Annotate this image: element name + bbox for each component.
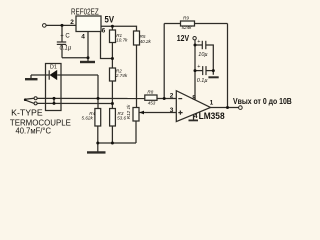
svg-text:1: 1 xyxy=(210,99,214,106)
svg-text:40.2k: 40.2k xyxy=(140,39,152,44)
svg-text:8: 8 xyxy=(192,94,196,101)
svg-text:453: 453 xyxy=(148,101,156,106)
svg-text:5.62k: 5.62k xyxy=(82,116,94,121)
svg-text:4: 4 xyxy=(81,33,85,40)
svg-text:+ C: + C xyxy=(60,33,70,39)
svg-text:0.1µ: 0.1µ xyxy=(60,45,72,51)
svg-text:Vвых от 0 до 10В: Vвых от 0 до 10В xyxy=(233,96,292,106)
svg-text:D1: D1 xyxy=(50,64,57,70)
svg-text:R12 1k: R12 1k xyxy=(126,104,131,119)
svg-text:2: 2 xyxy=(170,92,174,99)
svg-text:2.74k: 2.74k xyxy=(115,73,128,78)
svg-text:6: 6 xyxy=(102,27,106,34)
svg-text:12V: 12V xyxy=(177,33,190,43)
svg-text:+: + xyxy=(197,64,200,70)
svg-text:10.7k: 10.7k xyxy=(116,37,128,42)
svg-text:+: + xyxy=(197,39,200,45)
svg-text:524k: 524k xyxy=(182,25,193,30)
svg-text:0.1µ: 0.1µ xyxy=(197,78,208,84)
svg-text:K-TYPE: K-TYPE xyxy=(11,109,43,118)
svg-text:3: 3 xyxy=(170,107,174,114)
svg-text:2: 2 xyxy=(70,19,74,26)
svg-text:40.7мF/°C: 40.7мF/°C xyxy=(16,127,52,136)
svg-text:REF02EZ: REF02EZ xyxy=(71,6,99,16)
svg-text:53.6: 53.6 xyxy=(117,115,126,120)
svg-text:R8: R8 xyxy=(147,89,153,94)
svg-text:10µ: 10µ xyxy=(198,52,207,58)
svg-text:R9: R9 xyxy=(183,15,189,20)
svg-text:5V: 5V xyxy=(105,15,115,25)
svg-text:LM358: LM358 xyxy=(199,111,225,121)
svg-text:4: 4 xyxy=(194,113,198,120)
